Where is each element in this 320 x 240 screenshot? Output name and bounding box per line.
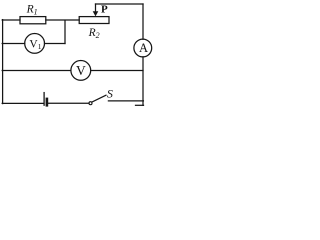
wire: V1 rail right segment bbox=[45, 43, 66, 45]
wire: wiper top horizontal to right corner bbox=[96, 3, 144, 5]
wire: left vertical rail bbox=[2, 20, 4, 104]
svg-text:S: S bbox=[107, 86, 113, 100]
voltmeter V circle bbox=[71, 61, 91, 81]
voltmeter V1 circle bbox=[25, 34, 45, 54]
ammeter A circle bbox=[134, 39, 152, 57]
rheostat R2 box bbox=[79, 17, 109, 24]
wire: top rail, R1 to R2 bbox=[46, 19, 79, 21]
switch S lever bbox=[92, 95, 106, 102]
wire: bottom rail, battery to switch bbox=[48, 102, 89, 104]
svg-text:V: V bbox=[76, 63, 86, 78]
wire: middle rail, V to right vertical bbox=[91, 70, 143, 72]
wire: bottom rail, left edge to battery bbox=[2, 102, 43, 104]
battery short thick plate (negative) bbox=[46, 99, 49, 105]
wire: middle rail, left edge to voltmeter V bbox=[2, 70, 71, 72]
wire: top rail, left edge to R1 bbox=[2, 19, 20, 21]
wiper arrowhead P bbox=[93, 11, 99, 16]
resistor R1 box bbox=[20, 17, 46, 24]
wire: right vertical, ammeter to bottom bbox=[142, 57, 144, 105]
wire: V1 vertical stub to top rail bbox=[64, 20, 66, 43]
svg-text:A: A bbox=[139, 41, 148, 55]
svg-text:P: P bbox=[101, 4, 108, 16]
wire: switch right terminal bbox=[108, 100, 143, 102]
switch S pivot circle bbox=[89, 102, 92, 105]
battery long plate (positive) bbox=[43, 93, 45, 106]
wire: V1 rail left segment bbox=[2, 43, 25, 45]
wire: wiper stem of R2 bbox=[95, 4, 97, 12]
wire: right vertical, corner to ammeter bbox=[142, 4, 144, 39]
wire: bottom-right foot bbox=[136, 104, 144, 106]
